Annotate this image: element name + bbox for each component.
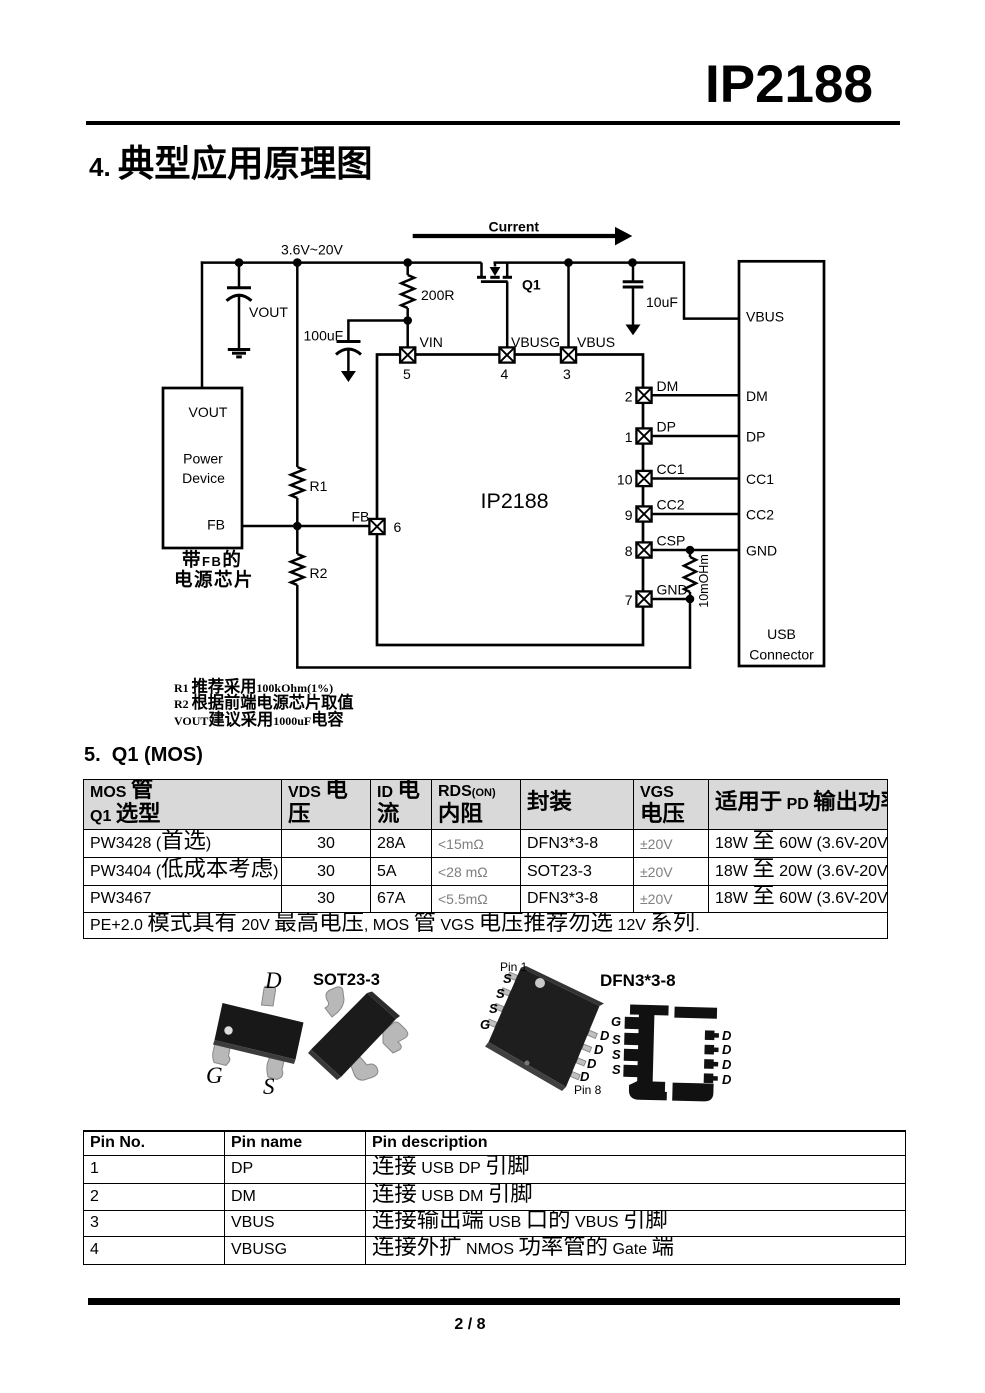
DFN3*3-8 footprint land pattern (623, 1004, 720, 1101)
svg-text:D: D (722, 1057, 732, 1072)
pin 1 DP (625, 428, 652, 445)
svg-text:S: S (496, 986, 505, 1001)
SOT23-3 tilted 3D view: leads (325, 987, 408, 1080)
section 4 title (89, 152, 373, 182)
svg-text:CC1: CC1 (657, 461, 685, 477)
USB connector box (739, 261, 824, 666)
ground (arrow) under 100uF (341, 371, 356, 382)
svg-text:Q1: Q1 (522, 277, 541, 293)
svg-text:10: 10 (617, 472, 633, 488)
wire 200R branch top (406, 261, 409, 275)
pin 6 FB (369, 519, 401, 535)
junction dot rail/R1 (293, 258, 302, 267)
svg-text:R2: R2 (310, 565, 328, 581)
svg-text:7: 7 (625, 592, 633, 608)
svg-text:CSP: CSP (657, 533, 686, 549)
svg-text:带FB的: 带FB的 (182, 549, 242, 570)
svg-text:Pin 8: Pin 8 (574, 1083, 602, 1097)
schematic notes (174, 680, 354, 729)
pin 2 DM (625, 388, 652, 405)
wire top rail left segment (201, 261, 482, 264)
svg-text:DM: DM (657, 378, 679, 394)
svg-text:D: D (264, 968, 282, 993)
resistor R2 (291, 554, 328, 585)
svg-text:8: 8 (625, 543, 633, 559)
wire R1 branch drop (296, 261, 299, 467)
svg-text:D: D (722, 1028, 732, 1043)
svg-text:D: D (594, 1042, 604, 1057)
pin table (83, 1130, 906, 1265)
svg-text:Device: Device (182, 470, 225, 486)
svg-text:VBUS: VBUS (746, 309, 784, 325)
svg-text:3: 3 (563, 366, 571, 382)
page number (440, 1316, 500, 1334)
header rule (86, 121, 900, 126)
transistor Q1 (PMOS pass FET) (477, 263, 541, 293)
svg-text:Current: Current (489, 219, 540, 235)
svg-text:3.6V~20V: 3.6V~20V (281, 242, 344, 258)
page header title IP2188 (705, 54, 873, 115)
wire 100uF branch horizontal (347, 319, 408, 322)
svg-text:D: D (722, 1072, 732, 1087)
pin 7 GND (625, 591, 652, 608)
wire pin7 GND to sense node (652, 582, 690, 600)
svg-text:1: 1 (625, 429, 633, 445)
svg-text:D: D (580, 1069, 590, 1084)
pin 4 VBUSG (499, 334, 560, 382)
svg-text:VBUSG: VBUSG (511, 334, 560, 350)
svg-text:GND: GND (746, 543, 777, 559)
svg-text:DM: DM (746, 388, 768, 404)
svg-text:DP: DP (657, 419, 676, 435)
svg-text:4: 4 (501, 366, 509, 382)
junction dot rail/10uF (628, 258, 637, 267)
wire 200R to VIN node (406, 308, 409, 347)
svg-text:100uF: 100uF (304, 328, 344, 344)
power device annotation 带FB的/电源芯片 (174, 549, 254, 590)
footprint right labels DDDD (722, 1028, 732, 1087)
PACKAGE FIGURE (0, 950, 985, 1110)
svg-text:S: S (612, 1032, 621, 1047)
wire bottom ground return (296, 666, 691, 669)
svg-text:VOUT: VOUT (249, 304, 288, 320)
svg-text:FB: FB (352, 509, 370, 525)
pin 5 VIN (400, 334, 443, 382)
junction dot rail/VOUT cap (235, 258, 244, 267)
junction dot GND sense bottom (686, 595, 695, 604)
DFN3*3-8 3D view: side pins (487, 972, 597, 1080)
svg-text:D: D (722, 1042, 732, 1057)
svg-text:SOT23-3: SOT23-3 (313, 971, 380, 989)
power device box (163, 388, 242, 548)
svg-text:S: S (489, 1001, 498, 1016)
wire pin2 DM to connector (652, 378, 739, 395)
current direction arrow (413, 219, 633, 246)
svg-text:VIN: VIN (420, 334, 443, 350)
ground (arrow) under 10uF (626, 325, 641, 336)
svg-text:CC2: CC2 (657, 497, 685, 513)
wire pin10 CC1 to connector (652, 461, 739, 479)
DFN3*3-8 3D view: body (485, 966, 604, 1091)
svg-text:S: S (503, 971, 512, 986)
junction dot CSP sense top (686, 546, 695, 555)
capacitor 100uF (304, 321, 362, 372)
svg-text:VBUS: VBUS (577, 334, 615, 350)
junction dot rail/pin3 riser (564, 258, 573, 267)
pin 9 CC2 (625, 506, 652, 523)
svg-text:S: S (263, 1074, 275, 1099)
svg-text:G: G (611, 1014, 621, 1029)
pin 8 CSP (625, 542, 652, 559)
svg-text:10uF: 10uF (646, 294, 678, 310)
resistor 200R (401, 275, 454, 308)
wire Q1 gate to VBUSG pin (506, 282, 509, 348)
resistor 10mOHm current sense (684, 550, 711, 608)
svg-text:VOUT: VOUT (189, 404, 228, 420)
svg-text:S: S (612, 1047, 621, 1062)
ground (earth) under VOUT cap (228, 350, 250, 357)
MOS table (83, 779, 888, 939)
wire VBUS pin3 riser (567, 261, 570, 347)
wire top rail right segment (494, 261, 685, 264)
section 5 title (84, 744, 203, 767)
svg-text:CC2: CC2 (746, 507, 774, 523)
svg-text:6: 6 (394, 519, 402, 535)
SCHEMATIC SVG PLACEHOLDER (0, 0, 985, 700)
wire FB node to R2 (296, 526, 299, 554)
capacitor 10uF (623, 261, 678, 324)
svg-text:IP2188: IP2188 (481, 489, 549, 513)
svg-text:DFN3*3-8: DFN3*3-8 (600, 971, 676, 990)
wire FB to pin 6 (241, 525, 370, 528)
pin 10 CC1 (617, 471, 652, 488)
junction dot rail/200R (403, 258, 412, 267)
svg-text:2: 2 (625, 389, 633, 405)
svg-text:S: S (612, 1062, 621, 1077)
svg-text:R1: R1 (310, 478, 328, 494)
node FB junction dot (293, 522, 302, 531)
resistor R1 (291, 467, 328, 498)
svg-text:10mOHm: 10mOHm (697, 554, 711, 607)
svg-text:9: 9 (625, 507, 633, 523)
svg-text:电源芯片: 电源芯片 (174, 569, 254, 590)
svg-text:G: G (206, 1063, 223, 1088)
wire sense bottom to ground return (689, 599, 692, 669)
SOT23-3 package top view: body (213, 1003, 304, 1064)
svg-text:CC1: CC1 (746, 471, 774, 487)
capacitor VOUT (227, 263, 289, 349)
wire R2 down to bottom return (296, 585, 299, 668)
junction dot 200R/100uF (403, 316, 412, 325)
svg-text:200R: 200R (421, 287, 454, 303)
SOT23-3 package top view: leads (213, 986, 285, 1080)
wire pin1 DP to connector (652, 419, 739, 437)
wire rail to USB VBUS (684, 261, 739, 318)
svg-text:G: G (480, 1017, 490, 1032)
footprint left labels GSSS (611, 1014, 621, 1077)
wire pin8 CSP to connector GND (652, 533, 739, 551)
svg-text:DP: DP (746, 429, 765, 445)
svg-text:FB: FB (207, 517, 225, 533)
pin 3 VBUS (561, 334, 615, 382)
SOT23-3 tilted 3D view: body (308, 992, 400, 1081)
svg-text:USB: USB (767, 626, 796, 642)
svg-text:5: 5 (403, 366, 411, 382)
wire pin9 CC2 to connector (652, 497, 739, 515)
DFN right pin labels DDDD (580, 1028, 610, 1084)
svg-text:Connector: Connector (749, 647, 814, 663)
footer bar (88, 1298, 900, 1305)
wire R1 to FB node (296, 498, 299, 526)
wire left drop to power device (201, 261, 204, 388)
IC IP2188 body (377, 355, 643, 646)
svg-text:Power: Power (183, 451, 223, 467)
DFN left pin labels SSSG (480, 971, 512, 1032)
svg-text:D: D (600, 1028, 610, 1043)
